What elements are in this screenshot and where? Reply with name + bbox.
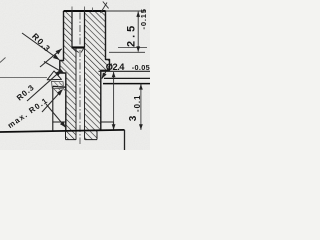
svg-text:2.5: 2.5 [126,23,138,47]
svg-text:Ø2.4: Ø2.4 [106,62,125,72]
svg-text:-0.15: -0.15 [139,8,148,29]
svg-text:-0.05: -0.05 [132,63,150,72]
svg-text:3: 3 [128,115,139,121]
svg-text:-0.1: -0.1 [133,95,142,112]
